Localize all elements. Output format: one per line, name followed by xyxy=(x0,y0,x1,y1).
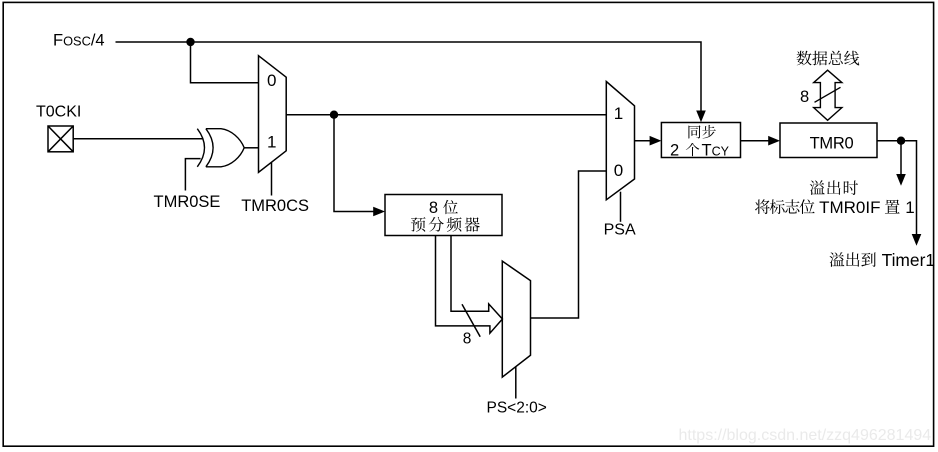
label overflow to Timer1 xyxy=(829,252,875,267)
data bus slash 8 xyxy=(815,87,841,102)
node junction Fosc/4 xyxy=(186,38,194,46)
wire sync block to TMR0 xyxy=(741,140,771,142)
wire prescaler output bus arrow xyxy=(436,236,503,334)
wire branch to prescaler xyxy=(334,115,375,212)
mux TMR0CS U1 xyxy=(259,56,287,173)
svg-text:TMR0: TMR0 xyxy=(810,135,854,153)
svg-text:FOSC/4: FOSC/4 xyxy=(53,32,105,50)
wire TMR0 output xyxy=(877,141,917,236)
wire TMR0SE to XOR xyxy=(185,159,200,191)
bus slash 8 xyxy=(462,304,480,336)
label overflow 溢出时 xyxy=(810,180,858,195)
data bus double arrow xyxy=(814,70,842,120)
svg-text:1: 1 xyxy=(267,133,276,152)
wire TMR0CS to mux xyxy=(271,162,273,195)
svg-text:TMR0SE: TMR0SE xyxy=(154,193,221,211)
svg-text:8: 8 xyxy=(463,330,472,347)
label 数据总线 xyxy=(797,51,860,66)
svg-text:Timer1: Timer1 xyxy=(882,250,935,270)
wire T0CKI to XOR xyxy=(73,138,202,140)
mux PSA U3 xyxy=(606,82,634,200)
wire PSA label to mux xyxy=(620,192,622,222)
svg-text:TMR0IF: TMR0IF xyxy=(819,198,880,217)
svg-text:PS<2:0>: PS<2:0> xyxy=(487,400,547,417)
svg-text:T0CKI: T0CKI xyxy=(36,104,81,121)
wire overflow arrow xyxy=(900,141,902,176)
wire mux output to PSA mux 1 input xyxy=(286,114,606,116)
arrowhead sync into TMR0 xyxy=(768,136,780,146)
svg-text:TCY: TCY xyxy=(702,141,730,159)
block TMR0 xyxy=(780,123,877,158)
label 同步 xyxy=(688,125,715,139)
wire PS<2:0> to mux xyxy=(515,367,517,399)
block 8-bit prescaler xyxy=(385,195,502,236)
svg-text:https://blog.csdn.net/zzq49628: https://blog.csdn.net/zzq496281494 xyxy=(679,427,932,444)
wire PS mux output to PSA mux 0 input xyxy=(531,171,607,318)
arrowhead PSA mux into sync xyxy=(650,136,662,146)
mux PS<2:0> U2 xyxy=(502,261,530,377)
svg-text:2: 2 xyxy=(670,141,679,159)
wire PSA mux output to sync block xyxy=(635,140,652,142)
svg-text:1: 1 xyxy=(905,198,914,217)
svg-text:0: 0 xyxy=(614,161,623,180)
wire XOR output to mux 1 input xyxy=(244,147,259,149)
XOR gate xyxy=(197,129,244,167)
svg-text:8: 8 xyxy=(800,88,809,106)
svg-text:0: 0 xyxy=(267,71,276,90)
svg-text:PSA: PSA xyxy=(604,222,636,239)
label 预分频器 xyxy=(411,217,480,232)
arrowhead overflow to Timer1 xyxy=(912,234,922,246)
arrowhead overflow flag xyxy=(896,174,906,186)
label set TMR0IF line xyxy=(755,199,815,214)
wire Fosc/4 to sync block xyxy=(116,42,702,112)
svg-text:1: 1 xyxy=(614,104,623,123)
arrowhead into prescaler xyxy=(373,207,385,217)
node junction TMR0 output xyxy=(897,137,905,145)
svg-text:TMR0CS: TMR0CS xyxy=(241,197,309,215)
arrowhead Fosc/4 into sync xyxy=(696,111,706,123)
wire from Fosc junction to mux 0 input xyxy=(191,42,259,83)
block sync 2 Tcy xyxy=(661,123,740,158)
pin T0CKI xyxy=(48,126,73,152)
node junction mux output xyxy=(330,111,338,119)
svg-text:8: 8 xyxy=(429,199,438,217)
